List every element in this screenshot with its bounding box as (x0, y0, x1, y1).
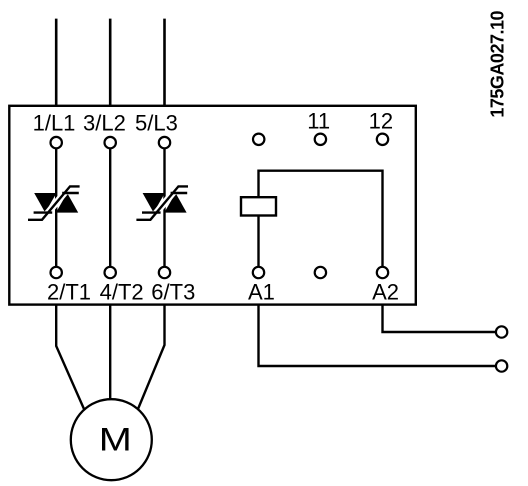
terminal A1 external end (496, 360, 507, 371)
wire T1 to motor (56, 305, 84, 409)
terminal A2 (377, 267, 388, 278)
svg-text:1/L1: 1/L1 (33, 111, 76, 136)
wire T3 to motor (138, 305, 165, 409)
terminal 6/T3 (159, 267, 170, 278)
wire phase 2 straight (109, 148, 111, 267)
svg-text:11: 11 (307, 109, 330, 134)
terminal 5/L3 (159, 137, 170, 148)
wire coil to A1 (257, 216, 259, 267)
wire phase 1 through thyristor (55, 148, 57, 267)
terminal unlabeled top (253, 134, 264, 145)
terminal 12 (377, 134, 388, 145)
wire L1 supply line (55, 19, 58, 106)
svg-text:A1: A1 (248, 280, 275, 305)
svg-text:A2: A2 (372, 280, 399, 305)
wire A1 external (259, 305, 497, 366)
svg-text:175GA027.10: 175GA027.10 (488, 11, 508, 118)
terminal 1/L1 (51, 137, 62, 148)
svg-text:12: 12 (369, 109, 393, 134)
wire coil top connection (259, 171, 383, 267)
svg-text:M: M (99, 421, 132, 457)
soft starter enclosure box (9, 106, 416, 305)
svg-text:6/T3: 6/T3 (151, 280, 195, 305)
terminal 2/T1 (51, 267, 62, 278)
svg-text:2/T1: 2/T1 (47, 280, 91, 305)
wire T2 to motor (109, 305, 111, 400)
svg-text:4/T2: 4/T2 (100, 280, 144, 305)
svg-text:3/L2: 3/L2 (83, 111, 126, 136)
wire L3 supply line (163, 19, 166, 106)
terminal A2 external end (496, 326, 507, 337)
wire phase 3 through thyristor (163, 148, 165, 267)
svg-text:5/L3: 5/L3 (135, 111, 178, 136)
wire L2 supply line (109, 19, 112, 106)
terminal A1 (253, 267, 264, 278)
thyristor pair (triac) phase L3 (136, 186, 188, 219)
terminal 4/T2 (105, 267, 116, 278)
terminal 3/L2 (105, 137, 116, 148)
motor M (71, 399, 152, 480)
relay coil K1 (241, 197, 276, 215)
wire A2 external (383, 305, 497, 332)
terminal 11 (315, 134, 326, 145)
thyristor pair (triac) phase L1 (28, 186, 80, 219)
terminal unlabeled bottom (315, 267, 326, 278)
